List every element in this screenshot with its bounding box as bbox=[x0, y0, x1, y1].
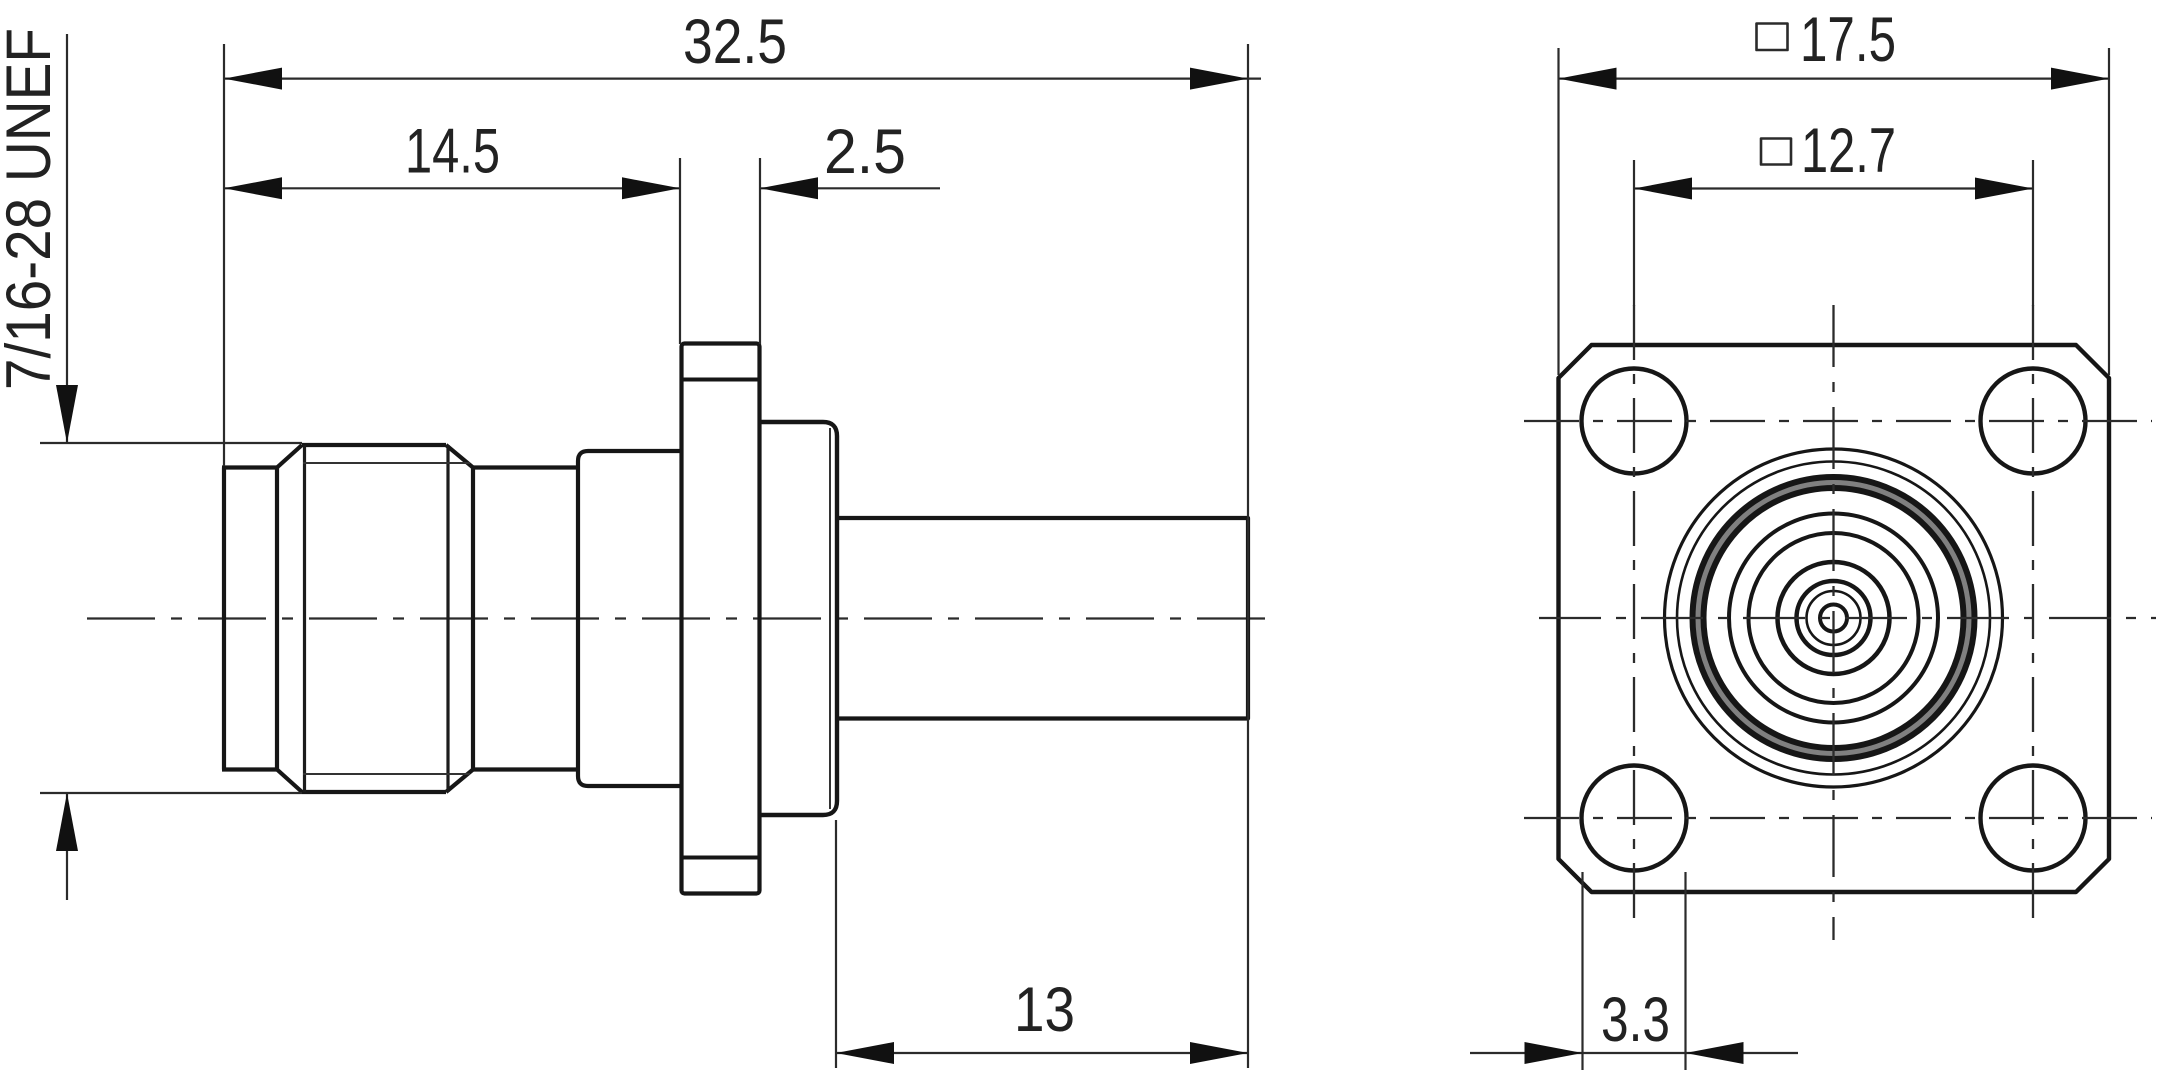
dimension 14.5 bbox=[224, 158, 680, 344]
wire pilot cylinder bbox=[222, 468, 277, 770]
svg-text:12.7: 12.7 bbox=[1801, 116, 1896, 186]
svg-text:14.5: 14.5 bbox=[405, 117, 500, 187]
bolt hole bottom-right bbox=[1981, 766, 2086, 871]
svg-text:32.5: 32.5 bbox=[683, 7, 787, 77]
svg-text:13: 13 bbox=[1014, 975, 1075, 1045]
thread runout lines bbox=[305, 445, 449, 792]
flange side view bbox=[682, 344, 760, 894]
centerline hole right vertical bbox=[2032, 305, 2034, 925]
interface circles bbox=[1665, 449, 2003, 787]
svg-text:2.5: 2.5 bbox=[824, 117, 906, 187]
centerline holes bottom horizontal bbox=[1524, 817, 2152, 819]
dimension 13 bbox=[836, 820, 1248, 1068]
collar behind flange bbox=[760, 422, 838, 815]
bolt hole top-right bbox=[1981, 369, 2086, 474]
dimension 32.5 bbox=[224, 44, 1261, 1068]
centerline vertical main bbox=[1832, 305, 1834, 940]
centerline side view bbox=[87, 617, 1273, 619]
svg-text:7/16-28 UNEF: 7/16-28 UNEF bbox=[0, 28, 64, 390]
collar inner edge line bbox=[829, 428, 831, 809]
wire neck cylinder bbox=[473, 468, 578, 770]
centerline horizontal main bbox=[1539, 617, 2156, 619]
thread root lines bbox=[303, 463, 470, 774]
thread callout 7/16-28 UNEF bbox=[40, 34, 302, 900]
dimension square 12.7 bbox=[1634, 160, 2033, 306]
rear stub bbox=[837, 518, 1248, 719]
flange chamfer line top bbox=[682, 378, 760, 382]
bolt hole top-left bbox=[1582, 369, 1687, 474]
svg-text:17.5: 17.5 bbox=[1800, 5, 1896, 75]
dimension 3.3 bbox=[1470, 872, 1798, 1070]
svg-text:3.3: 3.3 bbox=[1601, 985, 1670, 1055]
flange front view bbox=[1559, 345, 2110, 892]
dimension 2.5 bbox=[760, 158, 940, 344]
thread section crest outline bbox=[277, 445, 473, 792]
collar before flange bbox=[578, 451, 682, 786]
bolt hole bottom-left bbox=[1582, 766, 1687, 871]
flange chamfer line bottom bbox=[682, 856, 760, 860]
dimension square 17.5 bbox=[1559, 48, 2110, 375]
centerline holes top horizontal bbox=[1524, 420, 2152, 422]
centerline hole left vertical bbox=[1633, 305, 1635, 925]
